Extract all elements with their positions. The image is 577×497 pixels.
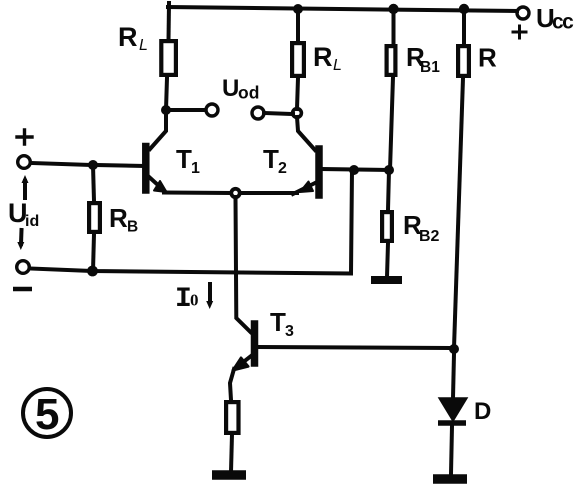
node RB1 RB2 junction — [384, 165, 394, 175]
wire RB2 from junction — [388, 170, 389, 210]
terminal Uod right — [252, 107, 264, 119]
label RB1 — [406, 42, 440, 76]
wire right RL drop from rail — [296, 9, 300, 41]
ground T3 emitter — [212, 470, 246, 480]
label T1 — [176, 144, 200, 177]
resistor RB1 body — [387, 46, 396, 75]
terminal input plus sign — [17, 130, 32, 144]
label RL left — [118, 22, 148, 54]
node left collector junction — [161, 105, 171, 115]
svg-text:B: B — [127, 219, 138, 236]
svg-text:1: 1 — [191, 160, 200, 177]
svg-text:U: U — [222, 75, 239, 102]
ground diode — [433, 474, 467, 484]
svg-text:3: 3 — [285, 323, 294, 340]
label D — [474, 398, 491, 425]
Vcc plus sign — [513, 26, 526, 38]
label Ucc — [536, 3, 574, 34]
wire T1 collector — [150, 114, 166, 149]
wire R drop from rail — [462, 9, 466, 44]
wire bottom input feed — [30, 170, 352, 274]
node rail junction RB1 — [388, 4, 398, 14]
svg-text:od: od — [238, 83, 259, 103]
svg-text:L: L — [333, 57, 342, 74]
svg-text:2: 2 — [278, 160, 287, 177]
node rail junction R — [459, 4, 469, 14]
svg-text:0: 0 — [190, 291, 199, 310]
label T3 — [270, 307, 294, 340]
svg-text:5: 5 — [35, 390, 59, 439]
figure number circle 5 — [23, 389, 71, 437]
node rail junction right RL — [293, 4, 303, 14]
resistor R body — [458, 46, 469, 76]
ground RB2 — [371, 276, 402, 284]
wire RB from top junction — [93, 165, 94, 201]
terminal Uod left — [206, 104, 218, 116]
wire T3 base lead — [258, 347, 449, 348]
svg-text:T: T — [270, 307, 286, 337]
wire junction to diode — [453, 354, 454, 398]
svg-text:B2: B2 — [419, 228, 440, 245]
resistor RB2 body — [382, 212, 392, 241]
svg-text:D: D — [474, 398, 491, 425]
wire resistor to ground — [231, 434, 232, 472]
wire input top to T1 base — [31, 163, 93, 165]
label T2 — [263, 144, 287, 177]
wire RB to bottom wire — [93, 234, 94, 271]
arrow Uid upper — [23, 181, 27, 198]
resistor RB body — [89, 203, 100, 232]
svg-text:R: R — [118, 22, 138, 52]
label Uid — [8, 198, 39, 230]
wire RB1 to junction — [390, 77, 393, 170]
wire RB2 to ground — [387, 243, 388, 277]
label RB2 — [403, 210, 440, 245]
transistor T2 base bar — [315, 149, 323, 195]
wire top supply rail — [168, 7, 517, 11]
svg-text:B1: B1 — [420, 59, 440, 76]
wire T1 base lead — [97, 165, 143, 166]
resistor RL left body — [161, 41, 176, 75]
label R — [478, 43, 497, 73]
label RB — [109, 203, 138, 236]
svg-text:R: R — [478, 43, 497, 73]
wire T2 base lead to bias junction — [322, 169, 390, 170]
label I0 — [175, 284, 199, 315]
arrow Uid lower — [19, 230, 24, 244]
diode D anode triangle — [439, 398, 467, 421]
svg-text:id: id — [25, 213, 39, 230]
resistor T3 emitter body — [226, 402, 238, 433]
wire node to Uod left terminal — [170, 108, 205, 112]
wire T2 collector — [297, 117, 315, 150]
wire T3 emitter to resistor — [230, 369, 234, 400]
node RB bottom junction — [87, 266, 98, 277]
wire T2 emitter to common node — [240, 191, 297, 195]
wire R down to base node — [454, 78, 463, 348]
svg-text:R: R — [109, 203, 128, 233]
svg-text:L: L — [139, 37, 148, 54]
svg-text:T: T — [176, 144, 192, 174]
transistor T3 base bar — [251, 324, 259, 363]
diode D cathode bar — [438, 420, 466, 426]
arrow I0 down — [208, 284, 212, 302]
label Uod — [222, 75, 259, 103]
node common emitters — [231, 189, 239, 197]
wire diode to ground — [451, 426, 452, 474]
wire right RL to node — [297, 78, 298, 109]
wire left RL drop from rail — [167, 3, 172, 41]
terminal Vcc circle — [517, 7, 529, 19]
terminal input bottom circle — [17, 261, 30, 274]
svg-text:R: R — [313, 42, 333, 72]
label RL right — [313, 42, 342, 74]
transistor T2 emitter with arrow — [293, 183, 315, 194]
transistor T1 emitter with arrow — [148, 176, 164, 191]
node right collector junction — [293, 109, 302, 118]
transistor T3 emitter with arrow — [237, 356, 251, 367]
svg-text:T: T — [263, 144, 279, 174]
svg-text:cc: cc — [552, 11, 574, 34]
resistor RL right body — [292, 43, 304, 76]
wire RB1 drop from rail — [392, 9, 396, 44]
transistor T1 base bar — [142, 147, 150, 191]
wire left RL to node — [166, 78, 167, 110]
node R / T3 base / diode junction — [449, 344, 459, 354]
wire common node to T3 collector — [236, 197, 251, 332]
terminal input minus sign — [13, 287, 32, 292]
wire T1 emitter to common node — [164, 191, 230, 196]
terminal input top circle — [18, 156, 31, 169]
node T2 base / bottom feed junction — [349, 165, 359, 175]
node RB top junction — [88, 160, 98, 170]
wire Uod right terminal to node — [264, 113, 293, 114]
